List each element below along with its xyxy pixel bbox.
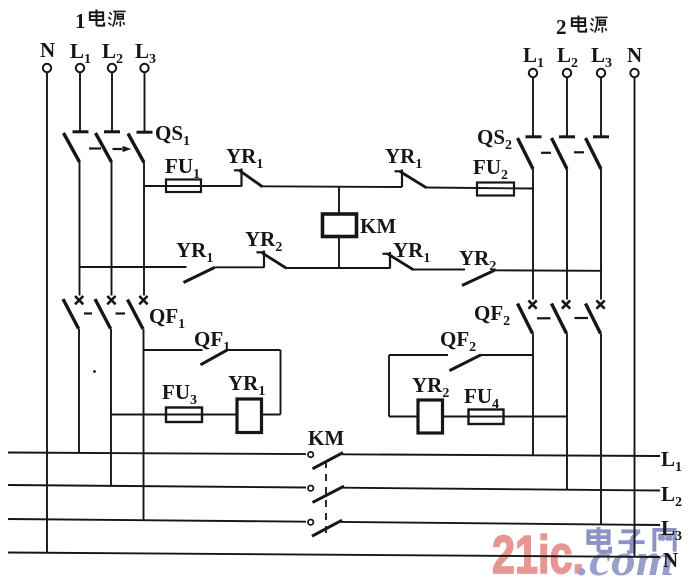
svg-text:YR1: YR1 xyxy=(226,144,263,172)
wire YR1 coil left lead (through FU3 to L2 pole) xyxy=(111,414,237,416)
svg-text:L2: L2 xyxy=(557,43,578,71)
svg-text:FU1: FU1 xyxy=(165,154,200,182)
svg-text:L1: L1 xyxy=(523,43,544,71)
label YR1 middle-right xyxy=(393,238,430,266)
svg-text:N: N xyxy=(663,548,678,572)
label QF1 xyxy=(149,304,185,332)
wire pole L1 source 1 (QS1 to QF1) xyxy=(79,162,81,296)
label FU4 xyxy=(464,384,499,412)
watermark 21ic xyxy=(492,525,584,578)
wire pole L1 source 2 (QF2 to bus L1) xyxy=(532,334,534,456)
contact YR1 middle-right (NC) xyxy=(383,252,414,270)
svg-text:L3: L3 xyxy=(591,43,612,71)
label QS2 xyxy=(477,125,512,153)
svg-text:FU3: FU3 xyxy=(162,380,197,408)
svg-text:QF2: QF2 xyxy=(440,327,476,355)
svg-text:L2: L2 xyxy=(661,482,682,510)
terminal L3 source 1 xyxy=(135,39,156,72)
label YR1 upper-left xyxy=(226,144,263,172)
svg-text:L1: L1 xyxy=(70,39,91,67)
contact YR1 upper-left (NC) xyxy=(234,169,263,187)
contact KM pole L1 xyxy=(308,452,343,469)
terminal L2 source 1 xyxy=(102,39,123,72)
svg-text:N: N xyxy=(627,43,642,67)
contact KM pole L2 xyxy=(308,486,344,503)
svg-text:1: 1 xyxy=(75,9,86,33)
contact YR1 middle-left (NO) xyxy=(184,268,215,283)
label FU3 xyxy=(162,380,197,408)
wire pole L2 source 1 (QS1 to QF1) xyxy=(111,162,113,296)
wire YR1 coil right lead xyxy=(262,414,281,416)
svg-text:YR1: YR1 xyxy=(176,238,213,266)
wire upper control right (YR1 to QS2 pole L1) xyxy=(427,188,534,189)
terminal N source 2 xyxy=(627,43,642,77)
wire YR2 coil right lead (through FU4 to L2 pole) xyxy=(443,416,568,418)
QS2 mechanical linkage dashes xyxy=(541,151,584,154)
wire N source 1 vertical xyxy=(46,72,48,553)
watermark char 子 xyxy=(618,531,644,552)
wire junction to KM coil top xyxy=(338,187,340,215)
label QF2 xyxy=(474,301,510,329)
fuse FU2 xyxy=(477,183,514,196)
contactor coil KM xyxy=(323,214,357,237)
label bus L1 xyxy=(661,447,682,475)
svg-text:QF1: QF1 xyxy=(194,327,230,355)
wire QF2 aux vertical left side xyxy=(388,355,390,417)
wire middle control (YR1 to YR2) xyxy=(215,266,265,268)
bus L2 right segment xyxy=(343,488,660,491)
svg-text:L2: L2 xyxy=(102,39,123,67)
contact YR2 middle-right (NO) xyxy=(462,270,495,285)
breaker QF2 pole L2 xyxy=(552,300,571,333)
watermark .com xyxy=(577,534,674,578)
svg-text:KM: KM xyxy=(360,214,396,238)
label source 1 heading "1电源" xyxy=(75,9,126,33)
wire N source 2 vertical xyxy=(634,77,636,557)
breaker QF2 pole L3 xyxy=(586,300,605,333)
breaker QF2 pole L1 xyxy=(518,300,537,333)
switch QS1 pole L1 xyxy=(64,72,89,162)
terminal L2 source 2 xyxy=(557,43,578,77)
svg-text:QF2: QF2 xyxy=(474,301,510,329)
svg-text:YR2: YR2 xyxy=(412,373,449,401)
bus N xyxy=(8,553,660,558)
bus L3 left segment xyxy=(8,519,306,522)
wire middle control far-left (L1 pole to YR1) xyxy=(80,266,187,268)
wire middle control far-right (YR2 to QS2 pole L3) xyxy=(495,269,602,272)
svg-text:21ic.: 21ic. xyxy=(492,525,584,578)
label QS1 xyxy=(155,121,190,149)
fuse FU3 xyxy=(166,408,202,423)
terminal L3 source 2 xyxy=(591,43,612,77)
svg-text:2: 2 xyxy=(556,15,567,39)
wire middle control centre (YR2 to YR1, KM junction) xyxy=(287,267,391,269)
label FU2 xyxy=(473,155,508,183)
label YR2 coil xyxy=(412,373,449,401)
svg-text:YR2: YR2 xyxy=(245,227,282,255)
wire pole L3 source 2 (QS2 to QF2) xyxy=(600,169,602,300)
bus L2 left segment xyxy=(8,485,306,488)
wire pole L1 source 2 (QS2 to QF2) xyxy=(532,169,534,300)
fuse FU1 xyxy=(166,180,201,193)
label YR1 upper-right xyxy=(385,144,422,172)
contact QF2 auxiliary (NO) xyxy=(450,355,482,371)
terminal L1 source 2 xyxy=(523,43,544,77)
label KM coil xyxy=(360,214,396,238)
scan speck xyxy=(93,370,96,373)
label bus L3 xyxy=(661,516,682,544)
fuse FU4 xyxy=(469,410,504,425)
svg-text:QS1: QS1 xyxy=(155,121,190,149)
label source 2 heading "2电源" xyxy=(556,15,608,39)
svg-text:QF1: QF1 xyxy=(149,304,185,332)
label YR1 coil xyxy=(228,371,265,399)
switch QS1 pole L3 xyxy=(128,72,153,162)
breaker QF1 pole L1 xyxy=(63,296,83,329)
svg-text:YR1: YR1 xyxy=(393,238,430,266)
svg-text:QS2: QS2 xyxy=(477,125,512,153)
wire pole L3 source 1 (QS1 to QF1) xyxy=(143,163,145,296)
switch QS1 pole L2 xyxy=(96,72,121,162)
svg-text:N: N xyxy=(40,38,55,62)
label YR2 middle-left xyxy=(245,227,282,255)
svg-text:YR1: YR1 xyxy=(228,371,265,399)
label QF1 aux xyxy=(194,327,230,355)
wire QF2 aux branch top left xyxy=(389,354,448,356)
svg-text:L3: L3 xyxy=(135,39,156,67)
contact KM pole L3 xyxy=(308,520,342,537)
wire pole L2 source 2 (QS2 to QF2) xyxy=(566,169,568,300)
label bus N xyxy=(663,548,678,572)
label bus L2 xyxy=(661,482,682,510)
wire pole L2 source 2 (QF2 to bus L2) xyxy=(566,334,568,490)
label YR2 middle-right xyxy=(459,246,496,274)
svg-text:FU2: FU2 xyxy=(473,155,508,183)
svg-text:L3: L3 xyxy=(661,516,682,544)
wire pole L3 source 1 (QF1 to bus L3) xyxy=(143,329,145,521)
wire upper control middle (YR1 to YR1, junction to KM) xyxy=(263,185,403,188)
svg-text:L1: L1 xyxy=(661,447,682,475)
wire pole L1 source 1 (QF1 to bus L1) xyxy=(78,329,80,454)
wire pole L2 source 1 (QF1 to bus L2) xyxy=(110,329,112,487)
label QF2 aux xyxy=(440,327,476,355)
bus L1 right segment xyxy=(342,454,660,456)
wire QF1 aux vertical right side xyxy=(280,350,282,415)
svg-text:YR2: YR2 xyxy=(459,246,496,274)
watermark char 电 xyxy=(588,527,610,552)
wire QF2 aux top right (to QF2 pole L1) xyxy=(481,354,533,356)
breaker QF1 pole L2 xyxy=(95,296,116,329)
QF2 mechanical linkage dashes xyxy=(537,317,588,319)
svg-text:KM: KM xyxy=(308,426,344,450)
wire KM coil bottom to middle control line xyxy=(338,237,340,269)
svg-text:YR1: YR1 xyxy=(385,144,422,172)
terminal L1 source 1 xyxy=(70,39,91,72)
svg-text:FU4: FU4 xyxy=(464,384,499,412)
switch QS2 pole L3 xyxy=(586,77,610,169)
contact YR2 middle-left (NC) xyxy=(257,251,287,269)
KM mechanical linkage dashed xyxy=(325,461,327,533)
label KM main contacts xyxy=(308,426,344,450)
terminal N source 1 xyxy=(40,38,55,72)
wire pole L3 source 2 (QF2 to bus L3) xyxy=(600,334,602,525)
breaker QF1 pole L3 xyxy=(128,296,148,329)
wire YR2 coil left lead xyxy=(389,416,418,418)
wire QF1 aux branch top (L3 pole to contact) xyxy=(144,349,203,351)
bus L3 right segment xyxy=(341,522,660,525)
QS1 mechanical linkage dashes xyxy=(89,147,128,151)
wire upper control left (L3 pole to contact YR1) xyxy=(144,185,242,187)
QF1 mechanical linkage dashes xyxy=(84,312,125,314)
wire QF1 aux top right xyxy=(228,349,281,351)
label YR1 middle-left xyxy=(176,238,213,266)
label FU1 xyxy=(165,154,200,182)
relay coil YR2 xyxy=(418,400,443,433)
relay coil YR1 xyxy=(237,399,262,433)
switch QS2 pole L1 xyxy=(518,77,542,169)
switch QS2 pole L2 xyxy=(552,77,576,169)
contact YR1 upper-right (NC) xyxy=(395,170,427,188)
bus L1 left segment xyxy=(8,453,306,455)
wire middle control (YR1 to YR2 right) xyxy=(414,269,466,271)
watermark char 网 xyxy=(654,530,674,552)
contact QF1 auxiliary (NO) xyxy=(201,350,228,365)
